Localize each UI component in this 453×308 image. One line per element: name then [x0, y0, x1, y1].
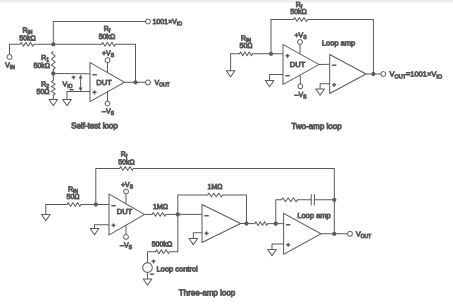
wire U6 noninverting input to ground — [272, 244, 284, 250]
wire node G to loop amp input (three-amp) — [276, 223, 284, 225]
wire U2 inverting input to ground — [270, 75, 283, 81]
node E junction (three-amp) — [176, 212, 180, 216]
node B junction — [51, 71, 55, 75]
resistor RIN (three-amp) 50 — [67, 203, 81, 207]
svg-text:50kΩ: 50kΩ — [118, 159, 135, 166]
wire ground to RIN (two-amp) — [231, 54, 240, 71]
node D junction (three-amp) — [94, 202, 98, 206]
resistor Rf (two-amp) 50k — [294, 18, 308, 22]
node A junction — [51, 42, 55, 46]
svg-text:50Ω: 50Ω — [66, 194, 79, 201]
wire U3 output — [366, 73, 381, 75]
svg-text:+: + — [332, 82, 336, 89]
svg-text:1MΩ: 1MΩ — [208, 184, 223, 191]
wire U6 output — [321, 233, 348, 235]
svg-text:+: + — [152, 259, 156, 265]
wire node E down to 500k — [177, 214, 179, 251]
wire +VS to U1 — [107, 63, 109, 73]
svg-text:+: + — [93, 90, 97, 97]
wire node E up to integrator feedback rail — [178, 195, 208, 214]
wire node D up to feedback rail — [96, 169, 120, 205]
svg-text:+: + — [112, 223, 116, 230]
wire resistor to capacitor — [298, 199, 312, 201]
wire Rf to feedback corner — [116, 43, 136, 45]
wire R2 to ground — [52, 95, 54, 100]
wire node C up to feedback rail — [271, 20, 294, 54]
op-amp U3 loop amp (two-amp) — [330, 55, 366, 94]
wire 1M feedback to integrator output — [223, 195, 247, 224]
terminal -VS (self-test) — [105, 101, 110, 106]
wire node C to DUT input (two-amp) — [271, 53, 283, 55]
wire -VS to U1 — [107, 92, 109, 101]
wire 500k right lead — [170, 251, 178, 253]
wire node D to DUT input (three-amp) — [96, 204, 109, 206]
terminal VOUT (three-amp) — [348, 231, 353, 236]
svg-text:+: + — [205, 231, 209, 238]
terminal +VS (three-amp) — [124, 189, 129, 194]
svg-text:+: + — [286, 242, 290, 249]
wire RIN to node D — [81, 204, 96, 206]
svg-text:–: – — [112, 203, 116, 210]
wire U2 output to loop amp — [319, 63, 330, 65]
svg-text:DUT: DUT — [290, 60, 306, 69]
svg-text:DUT: DUT — [96, 78, 112, 87]
wire RIN to node C — [253, 53, 272, 55]
ground below U2 inverting input — [265, 81, 274, 87]
wire 1M to node E — [166, 213, 178, 215]
wire ground to RIN (three-amp) — [46, 205, 67, 215]
op-amp U5 integrator (three-amp) — [202, 205, 241, 243]
ground below loop control — [143, 279, 152, 285]
resistor Rf (self-test) 50k — [102, 42, 116, 46]
terminal VOUT (two-amp) — [381, 72, 386, 77]
wire loop control source to ground — [147, 272, 149, 279]
terminal -VS (two-amp) — [298, 84, 303, 89]
svg-text:1MΩ: 1MΩ — [153, 204, 168, 211]
svg-text:Loop control: Loop control — [157, 265, 199, 274]
op-amp U4 DUT (three-amp) — [109, 194, 145, 235]
node H junction (three-amp) — [332, 198, 336, 202]
wire VIN to RIN — [10, 44, 21, 54]
wire node H down to output node — [333, 200, 335, 234]
wire node E to integrator input — [178, 213, 202, 215]
wire Rf to output node (two-amp) — [308, 20, 374, 75]
loop control source circle — [143, 263, 153, 273]
wire R1 to node B — [52, 70, 54, 74]
svg-text:50kΩ: 50kΩ — [33, 63, 50, 70]
wire +VS to U4 — [125, 194, 127, 204]
ground below U5 noninverting input — [189, 239, 198, 245]
resistor RC branch (three-amp) — [282, 198, 298, 202]
wire noninverting input to ground stub — [67, 92, 90, 100]
svg-text:Loop amp: Loop amp — [322, 39, 355, 48]
resistor R2 50 vertical — [51, 81, 55, 96]
node G junction (three-amp) — [274, 222, 278, 226]
svg-text:–: – — [205, 213, 209, 220]
svg-text:–: – — [286, 73, 290, 80]
wire U5 noninverting input to ground — [193, 233, 202, 239]
svg-text:50kΩ: 50kΩ — [290, 9, 307, 16]
terminal -VS (three-amp) — [124, 235, 129, 240]
ground below U4 noninverting input — [90, 229, 99, 235]
wire node B to DUT inverting input — [53, 73, 90, 75]
wire U4 output to 1M resistor — [145, 213, 153, 215]
node VOUT junction (two-amp) — [371, 72, 375, 76]
wire U5 output — [241, 223, 255, 225]
node F junction integrator output — [244, 221, 248, 225]
svg-text:Two-amp loop: Two-amp loop — [291, 122, 342, 131]
measurement arrow VIO double-headed — [80, 78, 82, 89]
terminal VIN — [7, 55, 12, 60]
op-amp U6 loop amp (three-amp) — [284, 213, 321, 254]
svg-text:Loop amp: Loop amp — [297, 211, 330, 220]
svg-text:–: – — [332, 62, 336, 69]
wire RIN to node A — [34, 43, 53, 45]
ground below R2 — [49, 100, 58, 106]
op-amp U2 DUT (two-amp) — [283, 45, 319, 85]
resistor R1 50k vertical — [51, 52, 55, 70]
resistor 1M feedback (integrator) — [208, 193, 223, 197]
svg-text:50Ω: 50Ω — [36, 89, 49, 96]
node VOUT junction (three-amp) — [332, 232, 336, 236]
ground left (three-amp) — [42, 215, 51, 221]
resistor coupling (three-amp) — [255, 222, 268, 226]
ground below VIO stub — [63, 100, 72, 106]
wire R2 top — [52, 74, 54, 81]
wire coupling resistor to node G — [268, 223, 276, 225]
resistor RIN (two-amp) 50 — [240, 52, 253, 56]
ground below U6 noninverting input — [268, 250, 277, 256]
wire -VS to U2 — [299, 75, 301, 84]
op-amp U1 DUT (self-test) — [90, 63, 125, 102]
terminal +VS (self-test) — [105, 58, 110, 63]
resistor 1M input (three-amp) — [152, 213, 166, 217]
wire node A to Rf — [53, 43, 101, 45]
svg-text:Three-amp loop: Three-amp loop — [179, 288, 236, 297]
capacitor (three-amp) — [310, 195, 312, 205]
wire node G up to RC branch — [276, 200, 282, 224]
svg-text:DUT: DUT — [117, 207, 133, 216]
svg-text:500kΩ: 500kΩ — [152, 241, 172, 248]
terminal +VS (two-amp) — [298, 40, 303, 45]
svg-text:50kΩ: 50kΩ — [99, 34, 116, 41]
wire U4 noninverting input to ground — [95, 225, 110, 229]
terminal 1001xVIO — [146, 19, 151, 24]
ground below U3 noninverting input — [316, 89, 325, 95]
svg-text:+: + — [72, 75, 76, 81]
wire U3 noninverting input to ground — [320, 84, 330, 89]
svg-text:–: – — [286, 222, 290, 229]
wire feedback up from output node — [135, 44, 137, 82]
wire 500k to loop control source — [148, 252, 156, 263]
top grey band (photo edge) — [0, 0, 453, 3]
wire U1 output — [125, 81, 146, 83]
node C junction (two-amp) — [269, 52, 273, 56]
svg-text:+: + — [286, 53, 290, 60]
svg-text:50kΩ: 50kΩ — [19, 36, 36, 43]
ground left (two-amp) — [226, 71, 235, 77]
resistor 500k (loop control) — [156, 250, 170, 254]
wire capacitor to node H — [314, 199, 334, 201]
svg-text:–: – — [93, 72, 97, 79]
svg-text:Self-test loop: Self-test loop — [71, 122, 118, 131]
wire +VS to U2 — [299, 44, 301, 54]
wire node A up to top rail — [53, 22, 145, 45]
resistor Rf (three-amp) 50k — [120, 167, 134, 171]
node VOUT junction (self-test) — [133, 80, 137, 84]
resistor RIN (self-test) 50k — [20, 42, 34, 46]
wire -VS to U4 — [125, 225, 127, 234]
svg-text:50Ω: 50Ω — [239, 43, 252, 50]
terminal VOUT (self-test) — [146, 80, 151, 85]
wire Rf rail to right corner (three-amp) — [134, 169, 335, 200]
